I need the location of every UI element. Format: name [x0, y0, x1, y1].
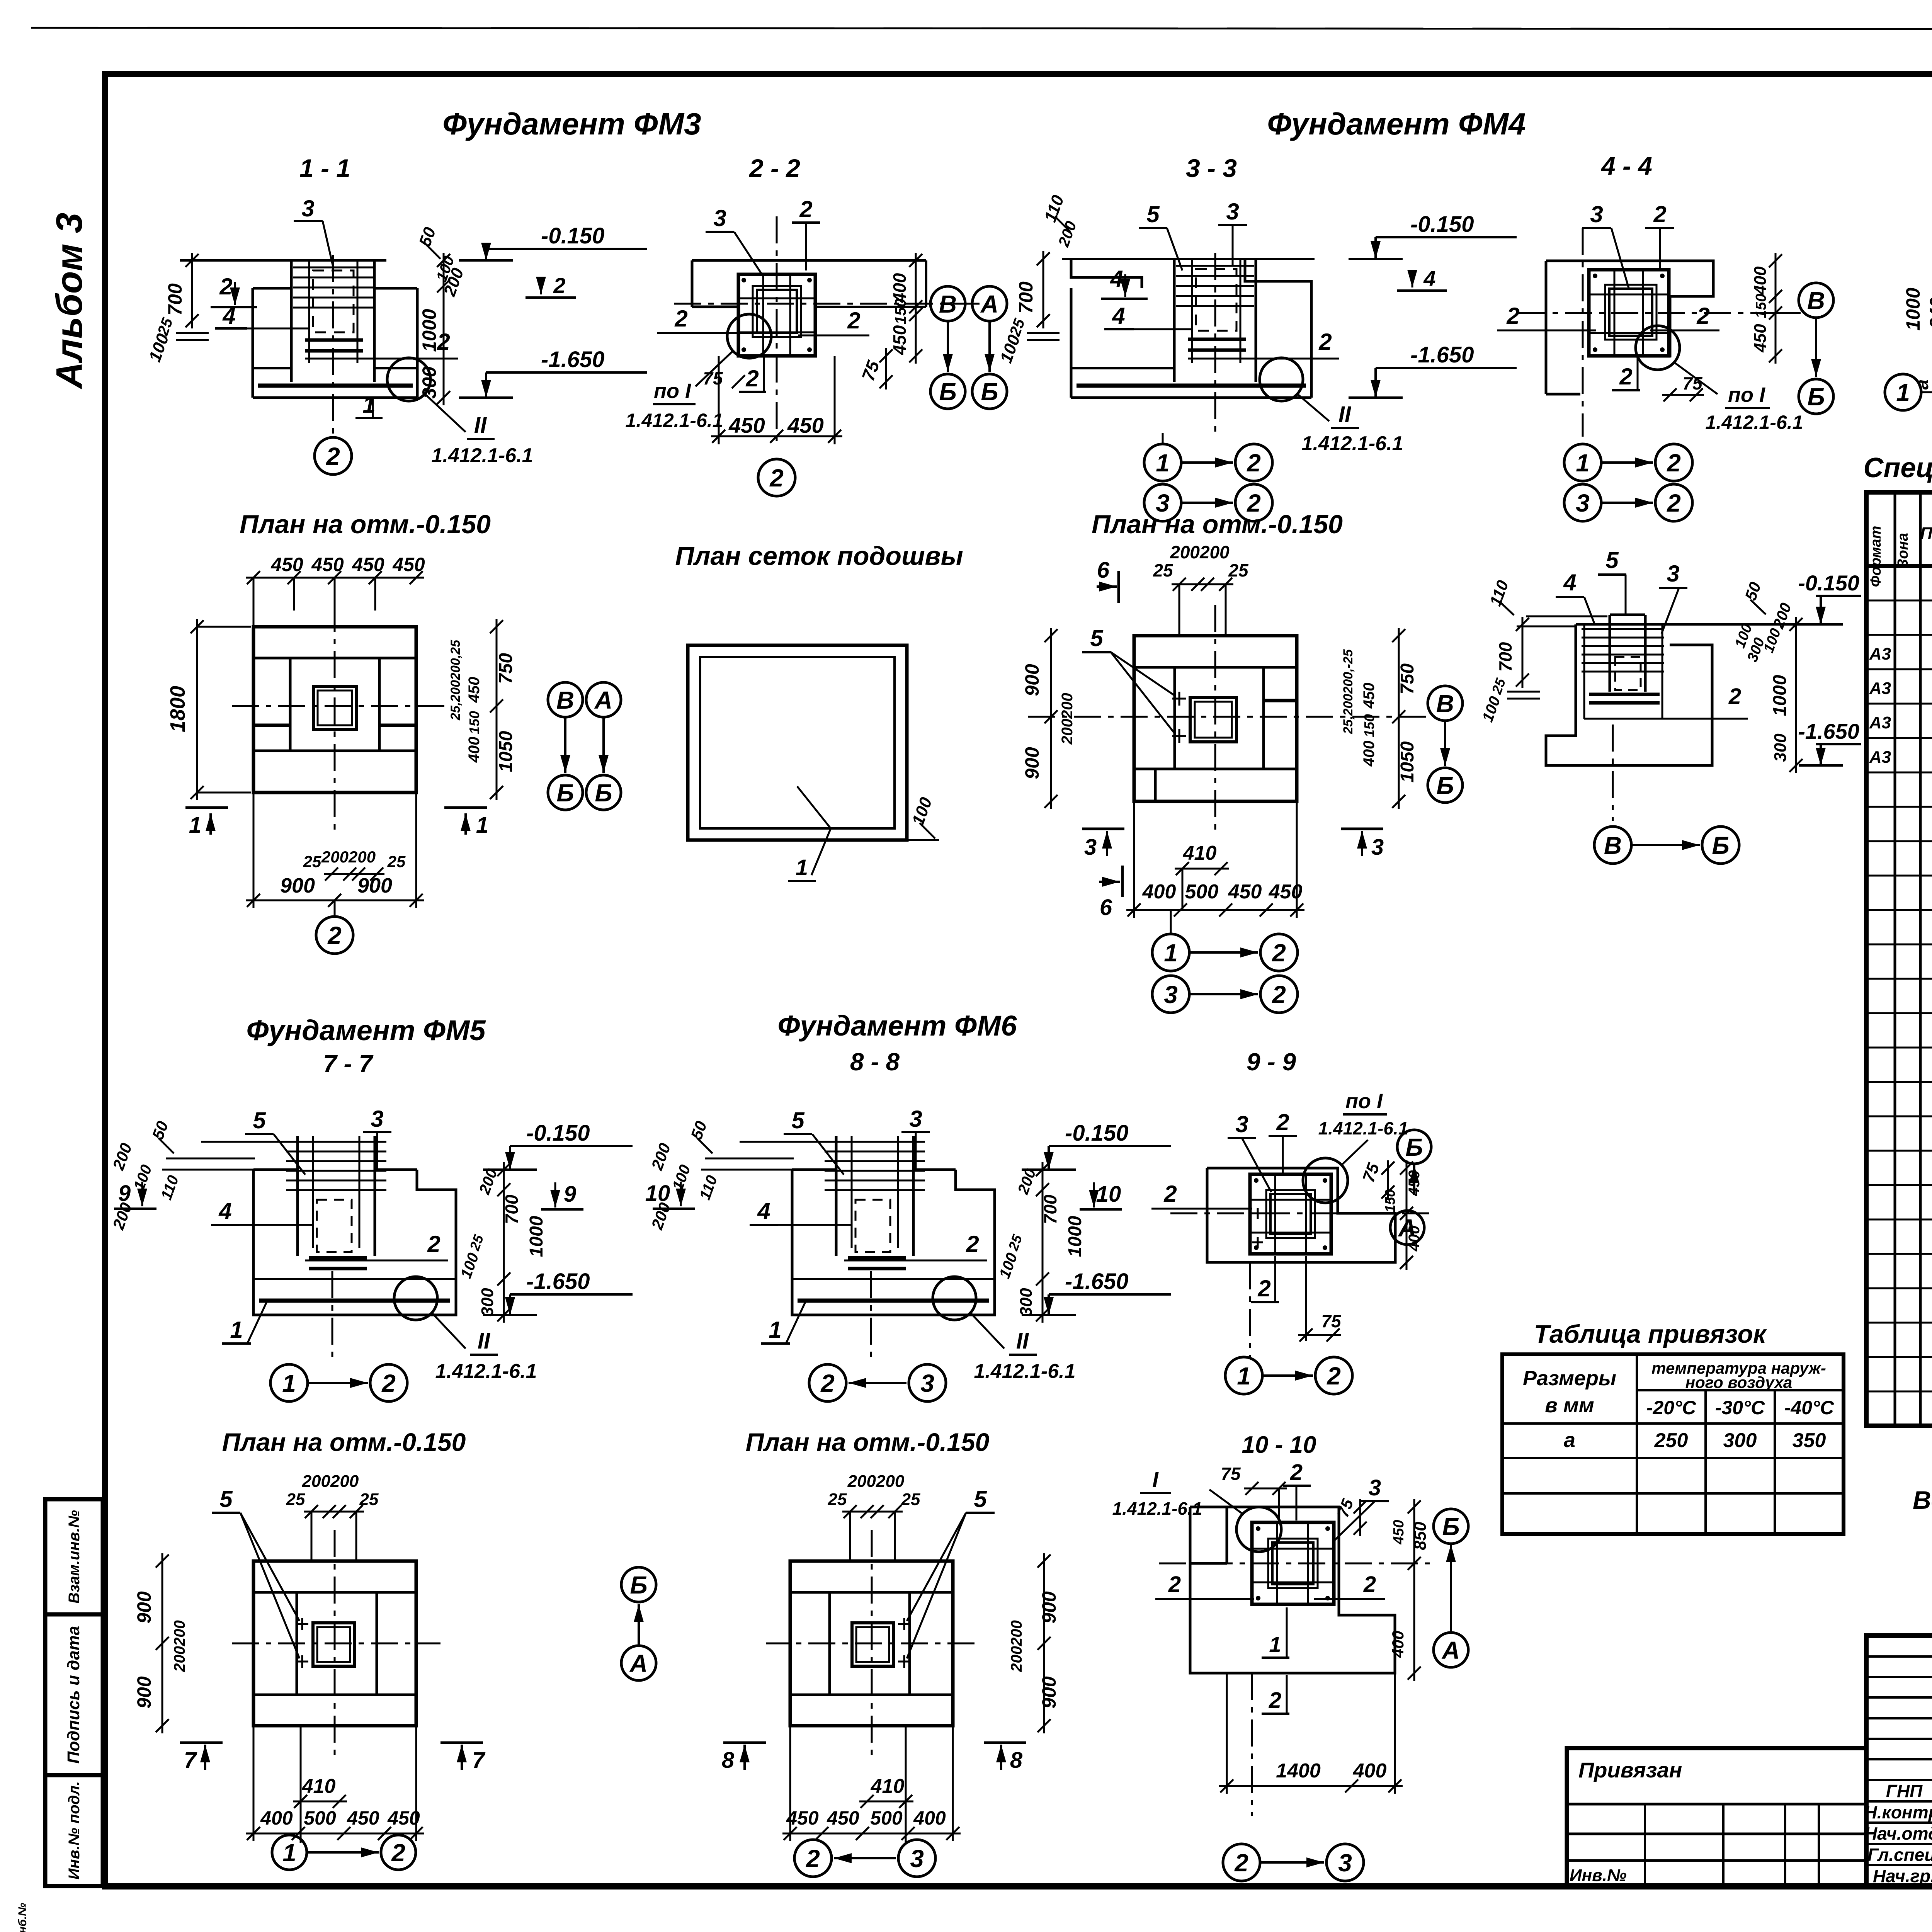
svg-text:900: 900	[133, 1676, 155, 1709]
svg-text:450: 450	[387, 1807, 420, 1829]
svg-text:Инб.№: Инб.№	[16, 1903, 29, 1932]
svg-text:25,200200,25: 25,200200,25	[448, 639, 463, 721]
section 9-9 axis circle B	[1397, 1130, 1431, 1164]
section top rebar extension	[740, 1141, 825, 1143]
privyazok table columns	[1636, 1354, 1638, 1534]
section 2-2 right dim	[915, 253, 917, 364]
svg-text:2: 2	[674, 306, 687, 332]
svg-text:Формат: Формат	[1868, 526, 1884, 587]
svg-text:2: 2	[1257, 1276, 1270, 1301]
svg-text:ГНП: ГНП	[1886, 1781, 1923, 1801]
svg-text:1: 1	[230, 1317, 243, 1343]
svg-text:В: В	[1436, 690, 1454, 718]
svg-text:500: 500	[304, 1807, 336, 1829]
svg-text:Фундамент ФМ3: Фундамент ФМ3	[442, 107, 701, 141]
section 6-6 anchor bars	[1589, 693, 1660, 696]
plan FM4 center cross	[1214, 605, 1216, 835]
svg-text:300: 300	[1723, 1429, 1757, 1452]
svg-text:9 - 9: 9 - 9	[1247, 1048, 1296, 1076]
section 9-9 axis dashdot	[1170, 1213, 1430, 1214]
section 6-6 axis circles V B	[1594, 827, 1631, 864]
svg-text:2: 2	[1247, 449, 1261, 477]
section 3-3 detail circle	[1260, 358, 1303, 401]
svg-text:1.412.1-6.1: 1.412.1-6.1	[1112, 1498, 1202, 1519]
section 9-9 grid lines	[1250, 1199, 1331, 1201]
svg-text:25: 25	[828, 1490, 847, 1509]
svg-text:3: 3	[1235, 1111, 1248, 1137]
stamp box Podpis i data	[45, 1614, 103, 1775]
svg-text:7: 7	[184, 1748, 197, 1773]
svg-text:План сеток подошвы: План сеток подошвы	[675, 541, 963, 571]
plan FM4 section marks 3	[1082, 828, 1124, 830]
section 10-10 outer slab	[1190, 1507, 1395, 1673]
section 9-9 outer slab	[1207, 1168, 1395, 1262]
section 10-10 pedestal square	[1252, 1522, 1334, 1604]
plan FM6 axis circle A	[621, 1646, 656, 1680]
svg-text:25: 25	[286, 1490, 305, 1509]
title block signature table outer	[1866, 1636, 1932, 1887]
svg-text:300: 300	[418, 366, 440, 399]
svg-text:700: 700	[1495, 642, 1515, 672]
svg-text:400: 400	[1142, 881, 1176, 903]
section 1-1 axis circle 2	[315, 437, 352, 474]
section 3-3 column	[1173, 259, 1176, 382]
svg-text:II: II	[1016, 1328, 1029, 1354]
section 10-10 inner squares	[1272, 1543, 1313, 1584]
svg-text:150: 150	[892, 299, 909, 325]
svg-text:2: 2	[1653, 201, 1666, 227]
section 1-1 column rebar mesh	[293, 267, 373, 269]
section slab rebar bar	[798, 1299, 989, 1303]
section 4-4 outline	[1546, 261, 1713, 357]
section 4-4 axis circles B B	[1799, 283, 1833, 318]
svg-text:-1.650: -1.650	[1410, 342, 1474, 367]
svg-text:4: 4	[1423, 266, 1435, 291]
svg-text:2: 2	[327, 922, 342, 949]
svg-text:1: 1	[282, 1369, 296, 1397]
section axis circle pair	[809, 1364, 846, 1401]
svg-text:900: 900	[133, 1591, 155, 1624]
svg-text:200200: 200200	[1170, 542, 1230, 562]
svg-text:Поз.: Поз.	[1920, 524, 1932, 543]
svg-text:8 - 8: 8 - 8	[850, 1048, 900, 1076]
svg-text:1000: 1000	[1902, 287, 1924, 330]
svg-text:1.412.1-6.1: 1.412.1-6.1	[1318, 1118, 1408, 1138]
svg-text:3: 3	[1590, 201, 1603, 227]
svg-text:3: 3	[1667, 561, 1679, 587]
plan outer square	[253, 1561, 416, 1726]
svg-text:2: 2	[769, 464, 784, 492]
svg-text:200200: 200200	[321, 848, 376, 866]
title block privyazan box	[1567, 1748, 1866, 1887]
privyazan box rows	[1567, 1803, 1866, 1806]
section 2-2 slab outline	[692, 259, 926, 262]
svg-text:2: 2	[1272, 981, 1286, 1009]
svg-text:4: 4	[1110, 266, 1123, 292]
svg-text:по I: по I	[1728, 383, 1765, 406]
svg-text:-1.650: -1.650	[1798, 719, 1859, 743]
section 4-4 axis circle pairs	[1564, 444, 1601, 481]
svg-text:-40°С: -40°С	[1784, 1397, 1834, 1418]
section 2-2 rebar marks	[742, 278, 746, 282]
svg-text:5: 5	[219, 1486, 233, 1512]
svg-text:План на отм.-0.150: План на отм.-0.150	[240, 510, 491, 539]
svg-text:1: 1	[1269, 1632, 1281, 1656]
svg-text:а: а	[1564, 1429, 1575, 1452]
svg-text:1.412.1-6.1: 1.412.1-6.1	[435, 1360, 537, 1383]
svg-text:1050: 1050	[496, 731, 516, 772]
svg-text:1: 1	[282, 1839, 296, 1867]
svg-text:200200: 200200	[1008, 1620, 1025, 1672]
svg-text:750: 750	[1397, 663, 1418, 694]
section 1-1 slab	[253, 367, 291, 369]
svg-text:Б: Б	[1405, 1133, 1423, 1161]
svg-text:75: 75	[1321, 1311, 1342, 1331]
svg-text:3: 3	[1226, 199, 1239, 224]
svg-text:4: 4	[218, 1198, 231, 1224]
svg-text:4: 4	[222, 303, 235, 329]
svg-text:400: 400	[1389, 1631, 1407, 1658]
svg-text:2: 2	[1667, 489, 1681, 517]
svg-text:900: 900	[280, 874, 315, 897]
svg-text:А: А	[1398, 1214, 1416, 1242]
section slab rebar bar	[259, 1299, 450, 1303]
svg-text:План на отм.-0.150: План на отм.-0.150	[222, 1428, 466, 1456]
section 2-2 detail circle	[727, 314, 771, 358]
svg-text:900: 900	[1038, 1676, 1060, 1709]
stamp box Vzam inv	[45, 1499, 103, 1614]
plan step lines	[253, 1591, 416, 1594]
svg-text:2: 2	[806, 1845, 820, 1872]
section 1-1 rebar dashed cage	[313, 270, 354, 332]
svg-text:1000: 1000	[526, 1216, 547, 1257]
section 4-4 grid lines	[1589, 294, 1669, 296]
svg-text:25: 25	[901, 1490, 920, 1509]
svg-text:1: 1	[476, 813, 488, 838]
section 4-4 detail circle	[1636, 326, 1680, 370]
section 2-2 grid lines	[738, 298, 815, 299]
svg-text:Таблица привязок: Таблица привязок	[1534, 1320, 1767, 1348]
svg-text:по I: по I	[654, 379, 691, 403]
svg-text:Фундамент ФМ5: Фундамент ФМ5	[247, 1014, 486, 1046]
plan FM3 outer square	[253, 627, 416, 793]
section 1-1 left dim	[191, 253, 193, 328]
svg-text:2: 2	[1506, 303, 1519, 329]
svg-text:2: 2	[1318, 329, 1332, 355]
section 9-9 detail circle	[1303, 1158, 1348, 1203]
svg-text:Б: Б	[981, 378, 998, 406]
plan FM4 axis circle B	[1428, 768, 1463, 803]
svg-text:200200: 200200	[847, 1472, 905, 1491]
svg-text:400: 400	[913, 1807, 946, 1829]
svg-text:500: 500	[1185, 881, 1219, 903]
plan FM6 axis circle pair	[794, 1840, 832, 1877]
svg-text:План на отм.-0.150: План на отм.-0.150	[1092, 510, 1343, 539]
svg-text:2: 2	[326, 442, 340, 470]
svg-text:150: 150	[1753, 294, 1769, 318]
svg-text:900: 900	[1021, 747, 1043, 779]
plan inner step rect	[830, 1592, 910, 1695]
plan inner step rect	[297, 1592, 377, 1695]
section 10-10 axis circle pair	[1223, 1844, 1260, 1881]
section 1-1 slab rebar bar	[258, 384, 413, 388]
section right dims	[503, 1162, 505, 1323]
plan section marks	[180, 1742, 223, 1744]
sheet edge top	[31, 28, 1932, 29]
svg-text:ного воздуха: ного воздуха	[1685, 1373, 1793, 1391]
svg-text:150: 150	[466, 711, 482, 734]
section outline	[792, 1170, 995, 1315]
section 1-1 detail circle	[387, 358, 430, 401]
svg-text:Альбом 3: Альбом 3	[49, 213, 90, 389]
svg-text:В: В	[556, 686, 574, 714]
svg-text:840: 840	[1927, 298, 1932, 328]
svg-text:410: 410	[302, 1775, 336, 1798]
section center axis	[332, 1271, 333, 1364]
plan FM3 inner step rect	[290, 658, 379, 751]
svg-text:400: 400	[1353, 1760, 1387, 1782]
stamp box Inv podl	[45, 1775, 103, 1886]
svg-text:Б: Б	[556, 779, 574, 807]
FM7 axis circle 1	[1885, 374, 1921, 410]
plan FM3 left dim 1800	[196, 619, 198, 800]
svg-text:2: 2	[1728, 684, 1741, 709]
spec table columns	[1894, 492, 1896, 1426]
section 3-3 slab rebar bar	[1077, 384, 1306, 388]
svg-text:Подпись и дата: Подпись и дата	[64, 1626, 83, 1764]
svg-text:2: 2	[820, 1369, 835, 1397]
section 10-10 rebar dots	[1256, 1526, 1260, 1531]
svg-text:3: 3	[301, 196, 314, 221]
svg-text:1: 1	[189, 813, 201, 838]
svg-text:1: 1	[1164, 939, 1178, 967]
spec table rows	[1866, 600, 1932, 602]
section 4-4 right dim	[1775, 253, 1777, 364]
section 1-1 ground line	[180, 259, 386, 262]
plan FM3 axis circles BB	[548, 775, 583, 810]
svg-text:1: 1	[796, 855, 808, 880]
svg-text:Гл.спец.: Гл.спец.	[1867, 1845, 1932, 1865]
section 9-9 inner squares	[1270, 1194, 1311, 1234]
svg-text:1 - 1: 1 - 1	[299, 154, 350, 182]
svg-text:5: 5	[1605, 547, 1619, 573]
section anchor bars	[309, 1256, 367, 1260]
svg-text:Б: Б	[1436, 772, 1454, 799]
svg-text:1: 1	[1237, 1362, 1251, 1390]
section axis circle pair	[270, 1364, 308, 1401]
svg-text:А3: А3	[1869, 679, 1891, 698]
plan FM4 column square	[1190, 697, 1236, 742]
svg-text:Б: Б	[630, 1571, 647, 1599]
svg-text:Инв.№ подл.: Инв.№ подл.	[66, 1781, 83, 1880]
svg-text:75: 75	[703, 368, 723, 388]
svg-text:-0.150: -0.150	[541, 223, 604, 248]
spec table outer	[1866, 492, 1932, 1426]
svg-text:4: 4	[1112, 303, 1125, 329]
plan outer square	[790, 1561, 953, 1726]
svg-text:700: 700	[164, 283, 186, 316]
svg-text:4: 4	[1563, 570, 1576, 595]
svg-text:II: II	[478, 1328, 491, 1354]
svg-text:по I: по I	[1345, 1090, 1383, 1113]
svg-text:-30°С: -30°С	[1715, 1397, 1765, 1418]
svg-text:2: 2	[1269, 1688, 1281, 1713]
svg-text:-0.150: -0.150	[526, 1121, 590, 1146]
svg-text:150: 150	[1382, 1189, 1398, 1213]
privyazok table outer	[1502, 1354, 1844, 1534]
svg-text:-1.650: -1.650	[1065, 1269, 1128, 1294]
plan FM3 center cross	[334, 605, 336, 835]
svg-text:2: 2	[391, 1839, 405, 1867]
plan FM5 axis circle pair	[272, 1835, 307, 1870]
svg-text:В: В	[939, 290, 957, 318]
svg-text:10 - 10: 10 - 10	[1242, 1432, 1316, 1458]
svg-text:450: 450	[392, 554, 425, 575]
svg-text:2: 2	[1667, 449, 1681, 477]
section 10-10 grid lines	[1252, 1548, 1334, 1550]
svg-text:А: А	[980, 290, 998, 318]
plan FM4 right dims cluster	[1398, 628, 1400, 809]
svg-text:1400: 1400	[1276, 1760, 1321, 1782]
svg-text:900: 900	[1038, 1591, 1060, 1624]
svg-text:2: 2	[799, 196, 812, 222]
svg-text:25: 25	[1153, 560, 1173, 580]
section 3-3 axis circle pairs	[1144, 444, 1181, 481]
plan center cross	[334, 1530, 336, 1762]
svg-text:7 - 7: 7 - 7	[323, 1050, 374, 1078]
svg-text:2: 2	[1290, 1460, 1303, 1485]
section anchor bars	[848, 1256, 906, 1260]
section right dims	[1042, 1162, 1044, 1323]
svg-text:150: 150	[1361, 714, 1377, 737]
svg-text:700: 700	[1040, 1194, 1060, 1224]
svg-text:II: II	[474, 413, 487, 438]
plan FM4 outer square	[1134, 636, 1297, 801]
svg-text:В: В	[1604, 832, 1622, 859]
plan FM3 right dims	[496, 619, 498, 800]
svg-text:Ведомость расхода стали на эле: Ведомость расхода стали на элемент см. н…	[1913, 1486, 1932, 1514]
svg-text:2: 2	[1163, 1181, 1177, 1207]
svg-text:450: 450	[1361, 683, 1378, 709]
svg-text:3: 3	[909, 1106, 922, 1132]
svg-text:2: 2	[1619, 364, 1632, 389]
svg-text:25: 25	[303, 852, 321, 871]
svg-text:300: 300	[1017, 1288, 1036, 1316]
plan anchor crosses	[898, 1623, 910, 1625]
svg-text:А3: А3	[1869, 713, 1891, 732]
svg-text:750: 750	[496, 653, 516, 684]
svg-text:2: 2	[745, 366, 759, 391]
svg-text:3: 3	[1338, 1849, 1352, 1877]
svg-text:6: 6	[1097, 558, 1110, 583]
plan anchor crosses	[296, 1623, 308, 1625]
privyazan box columns	[1644, 1804, 1646, 1887]
svg-text:-1.650: -1.650	[541, 347, 604, 372]
svg-text:5: 5	[253, 1107, 266, 1133]
svg-text:850: 850	[1411, 1522, 1430, 1550]
section ground line at 656	[162, 1169, 253, 1171]
section 1-1 pedestal	[252, 288, 254, 398]
svg-text:4: 4	[757, 1198, 770, 1224]
section 3-3 center axis	[1214, 253, 1216, 433]
section 2-2 axis dashdot	[674, 303, 989, 305]
svg-text:Зона: Зона	[1895, 533, 1911, 568]
section column	[835, 1136, 838, 1256]
svg-text:410: 410	[1183, 842, 1217, 864]
section 1-1 anchor bars	[305, 338, 363, 342]
svg-text:Инв.№: Инв.№	[1570, 1866, 1626, 1885]
section 9-9 pedestal square	[1250, 1174, 1331, 1254]
section 6-6 ground line	[1576, 623, 1840, 626]
svg-text:2 - 2: 2 - 2	[748, 154, 800, 182]
svg-text:3: 3	[1164, 981, 1178, 1009]
plan section marks	[984, 1742, 1026, 1744]
svg-text:5: 5	[1146, 201, 1160, 227]
svg-text:1000: 1000	[1770, 675, 1790, 716]
section column	[296, 1136, 299, 1256]
svg-text:410: 410	[871, 1775, 905, 1798]
svg-text:Взам.инв.№: Взам.инв.№	[66, 1510, 83, 1604]
svg-text:2: 2	[381, 1369, 396, 1397]
svg-text:Спецификация элементов монолит: Спецификация элементов монолитных фундам…	[1863, 452, 1932, 483]
plan FM3 column square	[313, 686, 356, 730]
privyazok data row	[1502, 1457, 1844, 1459]
svg-text:Нач.отд.: Нач.отд.	[1864, 1823, 1932, 1844]
plan FM4 section mark 6 top	[1117, 571, 1120, 603]
svg-text:-0.150: -0.150	[1410, 212, 1474, 237]
plan column square	[313, 1623, 354, 1666]
svg-text:350: 350	[1793, 1429, 1826, 1452]
svg-text:В: В	[1807, 287, 1825, 315]
plan FM4 left dims	[1050, 628, 1052, 809]
svg-text:А: А	[629, 1650, 648, 1677]
svg-text:450: 450	[787, 413, 823, 437]
svg-text:3 - 3: 3 - 3	[1186, 154, 1237, 182]
svg-text:2: 2	[1276, 1109, 1289, 1135]
plan FM4 axis circle pairs	[1152, 934, 1189, 971]
section 1-1 center axis	[332, 255, 334, 437]
plan left dims	[1043, 1553, 1045, 1733]
section ground line at 2050	[701, 1169, 792, 1171]
svg-text:7: 7	[472, 1748, 486, 1773]
svg-text:1.412.1-6.1: 1.412.1-6.1	[974, 1360, 1075, 1383]
svg-text:2: 2	[1272, 939, 1286, 967]
svg-text:1000: 1000	[418, 309, 440, 352]
section center axis	[870, 1271, 872, 1364]
svg-text:Фундамент ФМ4: Фундамент ФМ4	[1267, 107, 1526, 141]
svg-text:3: 3	[713, 205, 726, 231]
section detail circle	[394, 1277, 437, 1320]
svg-text:450: 450	[347, 1807, 379, 1829]
svg-text:900: 900	[357, 874, 392, 897]
plan FM3 section mark 1 left	[185, 806, 228, 809]
svg-text:200200: 200200	[1059, 693, 1076, 745]
svg-text:А3: А3	[1869, 748, 1891, 767]
section 2-2 pedestal square	[738, 274, 815, 356]
section 3-3 slab	[1071, 367, 1174, 369]
svg-text:300: 300	[1771, 733, 1790, 762]
svg-text:2: 2	[1168, 1572, 1181, 1597]
plan setok square	[688, 645, 907, 840]
section 9-9 axis circle pair	[1225, 1357, 1262, 1394]
section 10-10 detail circle	[1236, 1507, 1281, 1552]
svg-text:9: 9	[564, 1182, 576, 1207]
title block upper rows	[1866, 1655, 1932, 1658]
plan FM4 axis circle V	[1428, 686, 1463, 721]
svg-text:400: 400	[1751, 266, 1770, 295]
svg-text:1.412.1-6.1: 1.412.1-6.1	[626, 410, 723, 431]
svg-text:1050: 1050	[1397, 741, 1418, 782]
